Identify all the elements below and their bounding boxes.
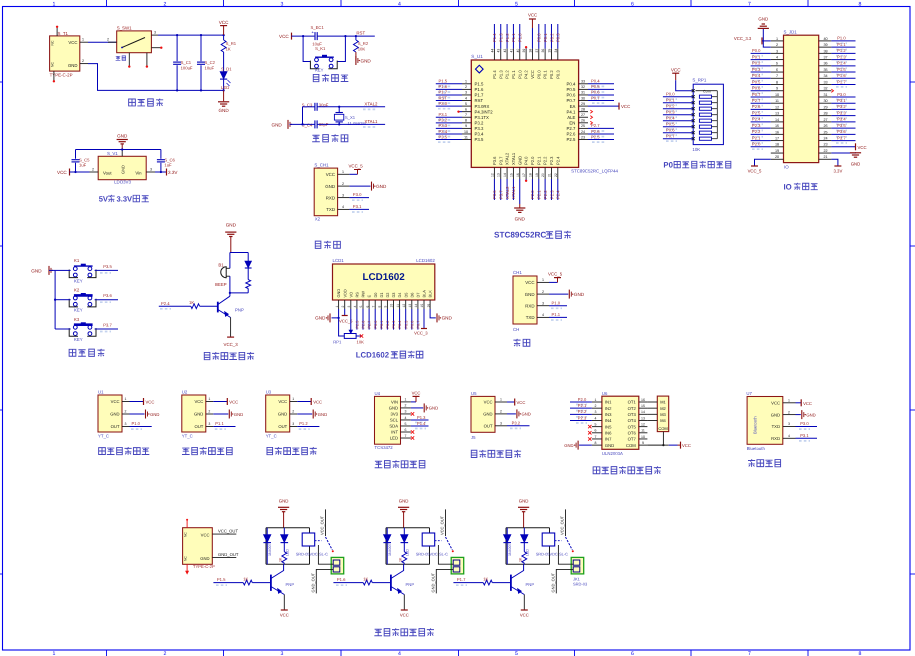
power 3.3V ldo output [155, 169, 178, 176]
caption 红外计数模块 [471, 450, 521, 458]
svg-text:1: 1 [342, 170, 344, 174]
module U7 Bluetooth [746, 391, 795, 451]
svg-text:EA: EA [570, 104, 576, 109]
svg-text:P0.3: P0.3 [666, 109, 675, 114]
svg-text:XTAL2: XTAL2 [364, 101, 378, 106]
svg-text:P2.1: P2.1 [752, 135, 761, 140]
relay coil K3 SRD-05VDC-SL-C [536, 533, 568, 557]
relay K2 frame wiring [386, 528, 430, 565]
svg-text:P2.1: P2.1 [537, 190, 542, 199]
LED relay 2 [401, 528, 410, 556]
svg-text:P3.1: P3.1 [837, 98, 846, 103]
power VCC ldo input [57, 169, 90, 176]
caption 液体触发模块 [182, 447, 232, 455]
svg-text:VIN: VIN [391, 400, 398, 405]
net P0.4 lcd data [398, 309, 402, 330]
svg-text:3.3V: 3.3V [833, 168, 842, 173]
svg-text:P2.4: P2.4 [555, 156, 560, 165]
svg-text:P3.6: P3.6 [492, 190, 497, 199]
svg-text:P1.2: P1.2 [837, 48, 846, 53]
net P0.3 lcd data [392, 309, 396, 330]
module U3 YT_C liquid sensor [266, 390, 298, 439]
svg-text:22: 22 [554, 173, 558, 177]
svg-text:2: 2 [500, 410, 502, 414]
svg-text:P1.5: P1.5 [837, 67, 846, 72]
svg-text:28: 28 [581, 107, 585, 111]
svg-text:BEEP: BEEP [215, 282, 227, 287]
terminal BK2 [451, 557, 464, 574]
net P1.6 relay input [333, 577, 363, 585]
svg-text:1K: 1K [363, 576, 368, 581]
svg-text:OT1: OT1 [628, 400, 637, 405]
svg-text:P2.5: P2.5 [567, 137, 576, 142]
svg-text:15: 15 [641, 404, 645, 408]
svg-text:VCC: VCC [400, 613, 409, 618]
svg-text:15: 15 [509, 173, 513, 177]
svg-text:P3.2: P3.2 [475, 121, 484, 126]
svg-text:M2: M2 [660, 406, 666, 411]
net P0.4 chip right [588, 79, 614, 87]
svg-text:P0.5: P0.5 [591, 84, 600, 89]
svg-text:VCC_OUT: VCC_OUT [560, 515, 565, 535]
svg-text:8: 8 [859, 651, 862, 656]
net P1.2 liquid out [297, 421, 319, 429]
svg-text:GND: GND [278, 412, 287, 417]
svg-text:22: 22 [823, 149, 827, 153]
svg-text:GND: GND [279, 498, 289, 503]
svg-text:P3.7: P3.7 [103, 322, 112, 327]
svg-text:GND: GND [376, 184, 387, 189]
svg-text:1K: 1K [189, 300, 194, 305]
net P0.0 lcd data [374, 309, 378, 330]
svg-text:KEY: KEY [74, 337, 83, 342]
net P0.3 chip top [556, 24, 561, 49]
svg-text:S_K1: S_K1 [315, 46, 326, 51]
transistor Q2 PNP relay [391, 564, 414, 594]
net P2.4 io left [751, 117, 771, 125]
svg-text:3: 3 [281, 651, 284, 656]
svg-text:GND: GND [758, 16, 768, 21]
caption 液体触发模块 [99, 447, 150, 455]
svg-text:K3: K3 [74, 317, 80, 322]
net P2.6 io left [751, 104, 771, 112]
svg-text:RST: RST [475, 98, 484, 103]
svg-text:P2.2: P2.2 [578, 409, 587, 414]
module U2 YT_C liquid sensor [182, 390, 214, 439]
ground GND liquid [297, 410, 327, 419]
wire alarm top rail [230, 252, 248, 254]
net P1.5 chip left pin 1 [436, 79, 462, 87]
power VCC_5 lcd [339, 309, 353, 323]
svg-text:P3.1: P3.1 [800, 433, 809, 438]
svg-text:BLK: BLK [428, 290, 433, 298]
power VCC_3.3 io [734, 36, 771, 44]
LED D alarm [245, 253, 252, 280]
svg-text:29: 29 [823, 105, 827, 109]
caption P0口上拉电阻电路 [663, 161, 730, 170]
svg-text:17: 17 [775, 136, 779, 140]
svg-text:3: 3 [405, 410, 407, 414]
svg-text:37: 37 [535, 49, 539, 53]
relay switch contact 2 [435, 537, 454, 552]
svg-text:VCC: VCC [858, 145, 867, 150]
display LCD1 LCD1602 [333, 258, 436, 309]
net P3.0 bluetooth txd [796, 421, 818, 429]
svg-text:12: 12 [490, 173, 494, 177]
net P0.1 chip top [543, 24, 548, 49]
svg-text:16: 16 [426, 304, 430, 308]
svg-text:P1.6: P1.6 [439, 84, 448, 89]
svg-text:38: 38 [528, 49, 532, 53]
svg-text:VCC: VCC [671, 67, 681, 72]
svg-text:P1.0: P1.0 [518, 33, 523, 42]
svg-text:1K: 1K [226, 46, 231, 51]
net P0.2 pullup [663, 103, 693, 111]
svg-text:34: 34 [554, 49, 558, 53]
module U4 TCS3472 color sensor [375, 391, 411, 450]
svg-text:3: 3 [150, 168, 152, 172]
svg-text:P3.4: P3.4 [439, 129, 448, 134]
power 3.3V io bottom right [831, 159, 842, 173]
svg-text:4: 4 [542, 313, 544, 317]
net P2.0 io left [751, 142, 771, 150]
net P0.1 pullup [663, 97, 693, 105]
svg-text:2: 2 [208, 410, 210, 414]
ground GND download [349, 182, 387, 191]
svg-text:GND: GND [389, 406, 398, 411]
net P3.4 chip left pin 10 [436, 129, 462, 137]
svg-text:D3: D3 [391, 293, 396, 298]
caption 颜色检测模块 [375, 460, 425, 468]
svg-text:GND: GND [325, 184, 335, 189]
svg-text:RST: RST [439, 95, 448, 100]
svg-text:P2.5: P2.5 [752, 110, 761, 115]
svg-text:VCC_5: VCC_5 [748, 168, 762, 173]
svg-text:5: 5 [595, 422, 597, 426]
svg-text:10: 10 [641, 435, 645, 439]
svg-text:P2.5: P2.5 [591, 134, 600, 139]
svg-text:2: 2 [341, 306, 345, 308]
svg-text:GND: GND [771, 412, 780, 417]
svg-text:LED: LED [221, 85, 229, 90]
terminal labels BK1 SRD-05 [573, 576, 588, 586]
svg-text:OUT: OUT [111, 424, 120, 429]
net P0.4 pullup [663, 115, 693, 123]
svg-text:GND: GND [483, 412, 492, 417]
svg-text:TYPE-C-2P: TYPE-C-2P [193, 564, 215, 569]
svg-text:P4.0: P4.0 [524, 156, 529, 165]
svg-text:XTAL1: XTAL1 [511, 186, 516, 199]
power VCC relay 3 [520, 595, 529, 618]
svg-text:1: 1 [208, 397, 210, 401]
svg-text:7: 7 [776, 74, 778, 78]
power VCC liquid [297, 398, 322, 405]
svg-text:3: 3 [595, 410, 597, 414]
svg-text:16: 16 [775, 130, 779, 134]
relay coil K1 SRD-05VDC-SL-C [296, 533, 328, 557]
svg-text:J5: J5 [471, 435, 476, 440]
svg-text:GND_OUT: GND_OUT [430, 572, 435, 592]
svg-text:GND: GND [519, 498, 529, 503]
no-connect stepper in [588, 431, 591, 434]
svg-text:P2.7: P2.7 [567, 126, 576, 131]
svg-text:D5: D5 [403, 293, 408, 298]
net P3.0 io right [831, 92, 855, 100]
svg-text:43: 43 [497, 49, 501, 53]
svg-text:P3.2: P3.2 [837, 104, 846, 109]
svg-text:39: 39 [522, 49, 526, 53]
svg-text:OUT: OUT [484, 424, 493, 429]
net P3.7 key [95, 322, 118, 331]
svg-text:S_RP1: S_RP1 [692, 78, 706, 83]
svg-text:P0.0: P0.0 [752, 48, 761, 53]
net P1.1 liquid out [213, 421, 235, 429]
resistor R relay 1 1K [278, 552, 286, 565]
net P0.5 pullup [663, 121, 693, 129]
power VCC bluetooth [796, 399, 812, 406]
svg-text:IN1: IN1 [605, 400, 612, 405]
svg-text:4: 4 [342, 205, 344, 209]
net P0.6 pullup [663, 127, 693, 135]
power VCC relay 2 [400, 595, 409, 618]
svg-text:TXD: TXD [772, 424, 780, 429]
svg-text:14: 14 [414, 304, 418, 308]
net P0.0 pullup [663, 91, 693, 99]
svg-text:3V3: 3V3 [391, 412, 399, 417]
svg-text:D0: D0 [373, 292, 378, 298]
svg-text:7: 7 [748, 1, 751, 7]
svg-text:VCC: VCC [313, 400, 322, 405]
svg-text:M3: M3 [660, 412, 666, 417]
svg-text:XTAL2: XTAL2 [505, 186, 510, 199]
svg-text:P0.6: P0.6 [591, 90, 600, 95]
power VCC chip top [528, 13, 537, 49]
svg-text:P1.4: P1.4 [417, 421, 426, 426]
svg-text:P2.0: P2.0 [578, 397, 587, 402]
svg-text:P1.0: P1.0 [132, 421, 141, 426]
ground GND alarm [225, 223, 236, 253]
svg-text:7: 7 [465, 113, 467, 117]
svg-text:9: 9 [384, 306, 388, 308]
svg-text:VCC: VCC [520, 613, 529, 618]
svg-text:VCC: VCC [280, 613, 289, 618]
svg-text:36: 36 [541, 49, 545, 53]
net P3.0 download [349, 192, 369, 200]
svg-text:17: 17 [522, 173, 526, 177]
svg-text:1: 1 [542, 278, 544, 282]
svg-text:P2.6: P2.6 [752, 104, 761, 109]
caption 继电器控制电路 [374, 628, 434, 636]
svg-text:7: 7 [371, 306, 375, 308]
transistor Q1 PNP relay [271, 564, 294, 594]
svg-text:VCC: VCC [803, 401, 812, 406]
svg-text:P0.6: P0.6 [410, 321, 414, 329]
svg-text:K1: K1 [74, 258, 80, 263]
svg-text:P0.7: P0.7 [591, 95, 600, 100]
svg-text:10K: 10K [357, 339, 365, 344]
svg-text:VCC: VCC [484, 400, 493, 405]
ground GND color [411, 403, 438, 412]
svg-text:P3.5: P3.5 [103, 264, 112, 269]
caption 晶振电路 [312, 134, 348, 142]
net P1.0 chip top [518, 24, 523, 49]
svg-text:VCC_3: VCC_3 [224, 342, 239, 347]
svg-text:P0.7: P0.7 [567, 98, 576, 103]
svg-text:GND: GND [564, 443, 573, 448]
svg-text:P3.2: P3.2 [439, 118, 448, 123]
net P3.1 bluetooth rxd [796, 433, 818, 441]
caption 串口 [513, 339, 529, 347]
ground GND stepper [564, 441, 592, 450]
svg-text:5: 5 [515, 651, 518, 656]
svg-text:1: 1 [465, 80, 467, 84]
net P2.5 lcd data [356, 309, 360, 330]
power VCC_5 download [349, 163, 364, 174]
ground GND io top [758, 16, 771, 47]
svg-text:VCC: VCC [57, 170, 67, 175]
svg-text:1N4007: 1N4007 [388, 543, 392, 556]
net P1.2 io right [831, 48, 855, 56]
svg-text:P2.2: P2.2 [752, 129, 761, 134]
svg-text:3: 3 [125, 422, 127, 426]
svg-text:5: 5 [776, 62, 778, 66]
svg-text:P3.3: P3.3 [475, 126, 484, 131]
svg-text:P2.4: P2.4 [556, 190, 561, 199]
svg-text:P1.5: P1.5 [475, 82, 484, 87]
svg-text:10: 10 [775, 93, 779, 97]
svg-text:GND: GND [68, 63, 78, 68]
wire stepper COM to VCC [647, 432, 677, 447]
svg-text:P3.1TX: P3.1TX [475, 115, 489, 120]
svg-text:RXD: RXD [326, 195, 335, 200]
connector S_CH1 download port [314, 162, 349, 221]
svg-text:OT4: OT4 [628, 418, 637, 423]
svg-text:VCC: VCC [525, 280, 534, 285]
svg-text:42: 42 [503, 49, 507, 53]
svg-text:P3.4: P3.4 [837, 117, 846, 122]
svg-text:BLA: BLA [422, 290, 427, 298]
net P3.3 chip left pin 9 [436, 123, 462, 131]
net RST [345, 31, 374, 38]
svg-text:IN3: IN3 [605, 412, 612, 417]
svg-text:4: 4 [405, 416, 407, 420]
svg-text:STC89C52RC: STC89C52RC [494, 231, 546, 240]
svg-text:P0.4: P0.4 [752, 73, 761, 78]
net P1.7 relay input [453, 577, 483, 585]
svg-text:GND: GND [515, 217, 526, 222]
svg-text:1: 1 [53, 651, 56, 656]
svg-text:P3.3: P3.3 [439, 123, 448, 128]
power VCC ir [507, 399, 525, 406]
svg-text:P3.7: P3.7 [499, 190, 504, 199]
no-connect chip pin 6 [457, 110, 462, 112]
svg-text:RXD: RXD [525, 303, 534, 308]
LED S_D1 [220, 66, 232, 91]
svg-text:18: 18 [775, 143, 779, 147]
net P2.4 chip bottom [556, 179, 561, 200]
caption 按键电路 [69, 349, 104, 357]
svg-text:P3.0: P3.0 [439, 101, 448, 106]
svg-text:XTAL1: XTAL1 [511, 152, 516, 165]
svg-text:IN5: IN5 [605, 424, 612, 429]
net P1.2 chip top [505, 24, 510, 49]
svg-text:P2.0: P2.0 [530, 156, 535, 165]
svg-text:PNP: PNP [235, 308, 244, 313]
svg-text:P2.1: P2.1 [536, 156, 541, 165]
svg-text:14: 14 [641, 410, 645, 414]
power VCC io right [831, 143, 866, 150]
svg-text:P1.7: P1.7 [457, 577, 466, 582]
svg-text:4: 4 [398, 651, 401, 656]
svg-text:3: 3 [788, 422, 790, 426]
svg-text:GND: GND [429, 406, 438, 411]
net P3.2 chip left pin 8 [436, 118, 462, 126]
svg-text:7: 7 [748, 651, 751, 656]
no-connect arrow chip right [590, 110, 592, 113]
svg-text:OT3: OT3 [628, 412, 637, 417]
svg-text:1N4007: 1N4007 [508, 543, 512, 556]
svg-text:P2.2: P2.2 [543, 156, 548, 165]
net P2.1 chip bottom [537, 179, 542, 200]
power VCC_3 lcd backlight [414, 309, 428, 336]
svg-text:7: 7 [595, 435, 597, 439]
svg-text:VCC: VCC [326, 172, 335, 177]
svg-text:VO: VO [348, 292, 353, 298]
MCU S_U1 STC89C52RC_LQFP44 [462, 49, 619, 179]
svg-text:X2: X2 [315, 217, 321, 222]
net P1.4 chip top [492, 24, 497, 49]
svg-text:P3.5: P3.5 [475, 137, 484, 142]
connector M motor header [647, 396, 668, 432]
terminal BK1 [331, 557, 344, 574]
svg-text:P2.7: P2.7 [591, 123, 600, 128]
module U1 YT_C liquid sensor [98, 390, 130, 439]
svg-text:P0.3: P0.3 [556, 33, 561, 42]
svg-text:P1.2: P1.2 [505, 70, 510, 79]
svg-text:TYPE-C-2P: TYPE-C-2P [50, 72, 73, 77]
net GND_OUT relay 3 [550, 569, 573, 593]
svg-text:CH1: CH1 [513, 270, 522, 275]
svg-text:M1: M1 [660, 400, 666, 405]
pushbutton K1 KEY [55, 258, 96, 283]
connector S_T1 TYPE-C-2P [50, 26, 88, 83]
svg-text:P1.6: P1.6 [475, 87, 484, 92]
svg-text:9: 9 [465, 124, 467, 128]
svg-text:2: 2 [542, 290, 544, 294]
svg-text:15: 15 [775, 124, 779, 128]
svg-text:5V: 5V [99, 194, 109, 203]
svg-text:IN6: IN6 [605, 431, 612, 436]
net P3.7 chip bottom [499, 179, 504, 200]
svg-text:6: 6 [631, 651, 634, 656]
svg-text:GND: GND [110, 412, 119, 417]
net P0.5 chip right [588, 84, 614, 92]
svg-text:GND: GND [200, 556, 209, 561]
no-connect arrow chip right [590, 116, 592, 119]
net P0.1 lcd data [380, 309, 384, 330]
svg-text:OT2: OT2 [628, 406, 637, 411]
svg-text:NC: NC [184, 532, 188, 537]
ground GND liquid [130, 410, 160, 419]
caption LCD1602显示模块 [356, 350, 423, 359]
net P0.1 io left [751, 54, 771, 62]
svg-text:P0.3: P0.3 [752, 67, 761, 72]
net P3.0 chip left pin 5 [436, 101, 462, 109]
net P2.5 io left [751, 110, 771, 118]
resistor R alarm [246, 280, 251, 293]
net P2.6 chip right [588, 129, 614, 137]
svg-text:P3.0: P3.0 [837, 92, 846, 97]
